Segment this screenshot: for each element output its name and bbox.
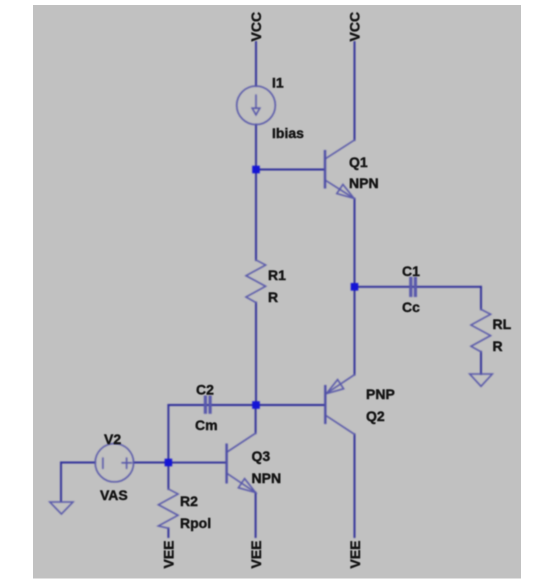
svg-text:Cc: Cc	[402, 299, 420, 315]
svg-text:R2: R2	[180, 493, 198, 509]
svg-text:VCC: VCC	[248, 12, 264, 42]
svg-text:R: R	[493, 338, 503, 354]
svg-text:R: R	[268, 289, 278, 305]
svg-text:NPN: NPN	[252, 470, 282, 486]
svg-text:Ibias: Ibias	[272, 125, 304, 141]
svg-text:C2: C2	[196, 382, 214, 398]
svg-text:VEE: VEE	[248, 540, 264, 568]
svg-text:I1: I1	[272, 75, 284, 91]
svg-text:R1: R1	[268, 267, 286, 283]
svg-text:NPN: NPN	[349, 175, 379, 191]
svg-text:Rpol: Rpol	[180, 515, 211, 531]
svg-text:VAS: VAS	[100, 487, 128, 503]
svg-text:PNP: PNP	[366, 386, 395, 402]
svg-text:Q2: Q2	[366, 408, 385, 424]
svg-text:VEE: VEE	[347, 540, 363, 568]
svg-text:Cm: Cm	[195, 417, 218, 433]
svg-text:V2: V2	[104, 431, 121, 447]
svg-text:RL: RL	[493, 316, 512, 332]
svg-text:C1: C1	[402, 263, 420, 279]
svg-text:Q1: Q1	[349, 154, 368, 170]
svg-text:Q3: Q3	[252, 448, 271, 464]
svg-text:VEE: VEE	[161, 540, 177, 568]
svg-text:VCC: VCC	[346, 12, 362, 42]
